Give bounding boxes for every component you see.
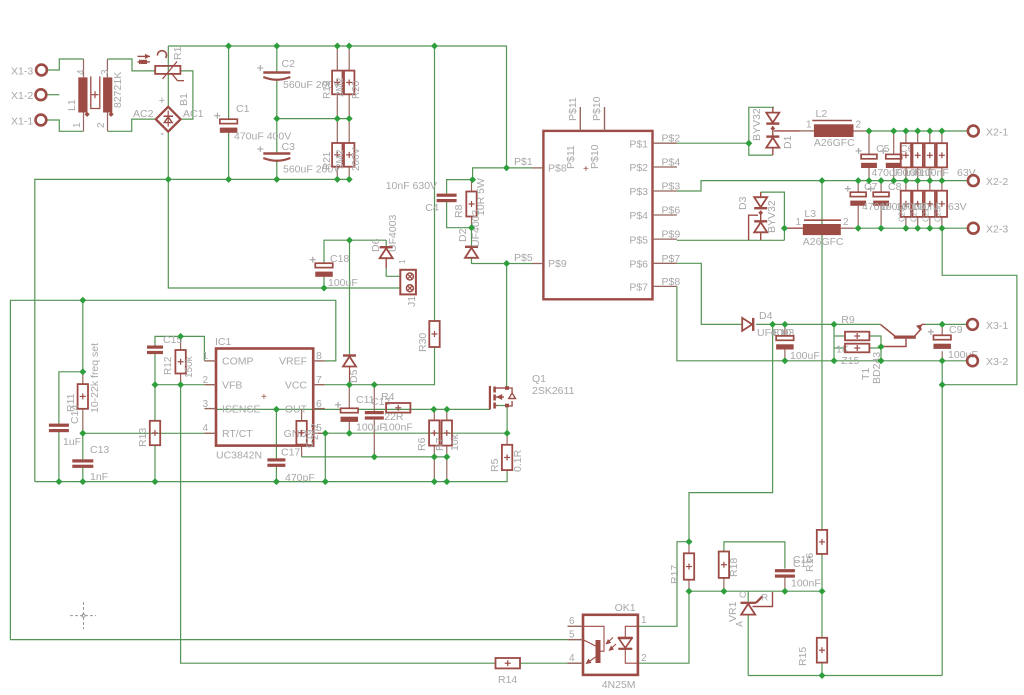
svg-text:X1-2: X1-2 [11,90,33,102]
wire Q1 drain column [506,264,508,388]
svg-text:X1-1: X1-1 [11,116,33,128]
wire top rail B+ [168,46,506,168]
svg-text:X3-1: X3-1 [986,320,1008,332]
svg-text:2SK2611: 2SK2611 [532,385,575,397]
capacitor C8 100nF [868,181,902,206]
wire D2 anode to P$5 row [472,257,532,263]
wire R16 R15 node column [821,554,823,676]
svg-text:ISENSE: ISENSE [222,404,261,416]
diode D2 UF4003 [457,209,482,257]
svg-text:1nF: 1nF [90,471,108,483]
svg-text:100uF: 100uF [328,277,358,289]
wire X2-2 rail [677,181,967,191]
svg-text:63V: 63V [948,201,967,213]
svg-text:+: + [159,95,165,107]
svg-text:P$3: P$3 [629,186,648,198]
value text output row 1 [872,167,976,179]
diode D6 UF4003 [370,214,399,268]
wire OK1 pin 1 to R17 top [638,542,689,627]
svg-text:L1: L1 [66,99,78,111]
wire row under R6 R7 [302,456,448,458]
svg-text:VREF: VREF [279,356,307,368]
wire D1 cathode to L2 [774,130,800,132]
svg-text:P$9: P$9 [548,258,567,270]
svg-text:1: 1 [796,217,802,228]
resistor R17 [669,553,694,584]
wire C15 bottom to VFB [154,354,156,385]
svg-text:X2-3: X2-3 [986,224,1008,236]
capacitor C20 [901,143,911,167]
svg-text:R7: R7 [434,437,446,451]
transistor T1 BD243 [860,324,925,384]
wire P$8 to X3-2 rail [677,286,967,360]
svg-text:4: 4 [202,423,208,434]
capacitor C18 100uF [310,253,358,289]
svg-text:+: + [583,164,589,175]
resistor R4 22R [381,391,410,423]
resistor R6 10k [416,420,440,451]
wire C16 bottom stub [784,577,786,591]
svg-text:P$5: P$5 [514,252,533,264]
svg-text:P$9: P$9 [662,229,681,241]
capacitor C19 under OUT [296,421,321,448]
resistor R11 10-22k freq set [65,343,101,424]
connector X1-1 [11,115,46,128]
svg-text:P$1: P$1 [514,156,533,168]
svg-text:OK1: OK1 [615,602,636,614]
capacitor C25 [913,191,923,217]
wire R14 to OK1 pin 4 [520,662,583,664]
wire R8 stubs [471,180,473,228]
svg-text:D2: D2 [457,228,469,242]
value text output row 2 [862,201,967,213]
svg-text:R1: R1 [172,46,184,60]
svg-text:D3: D3 [737,196,749,210]
capacitor C6 100nF [880,143,913,168]
svg-text:R14: R14 [498,674,517,686]
wire C2 C3 column [277,46,349,179]
svg-text:P$11: P$11 [567,97,579,121]
svg-text:D6: D6 [370,238,382,252]
resistor R21 [322,143,343,170]
connector X1-3 [11,65,47,78]
op-amp IC1 UC3842N [202,336,324,462]
svg-text:1: 1 [72,122,83,128]
svg-text:R30: R30 [417,333,429,352]
svg-text:C17: C17 [281,447,300,459]
wire snubber to C4 [447,180,473,194]
wire P$9 row to D3 [677,239,785,241]
svg-text:R: R [762,593,769,603]
svg-text:D1: D1 [782,135,794,149]
svg-text:C9: C9 [949,324,963,336]
wire snubber node from P$1 [473,168,507,180]
wire L1 pin 3 to varistor R1 [107,59,155,71]
wire P$2 row [677,142,749,144]
wire R12 stubs [180,336,182,384]
svg-text:4: 4 [569,653,575,664]
inductor L1 [66,59,124,131]
svg-text:P$7: P$7 [662,253,681,265]
wire C13 column [82,433,84,481]
wire R11 stubs [82,372,84,434]
svg-text:R6: R6 [416,437,428,451]
wire D3 to L3 pin 1 [784,227,802,229]
resistor R22 [335,143,362,171]
wire D6 anode to J1 pin 1 [386,268,400,276]
svg-text:X3-2: X3-2 [986,356,1008,368]
wire C7 column [857,181,859,229]
svg-text:C1: C1 [236,103,250,115]
wire X2-3 to feedback loop [942,228,1017,385]
svg-text:IC1: IC1 [215,336,232,348]
wire ground rail [35,471,507,482]
svg-text:A: A [735,621,745,627]
svg-text:VCC: VCC [285,380,308,392]
connector X2-2 [968,175,1008,188]
resistor R16 [793,530,827,572]
wire R30 top column [434,46,436,321]
resistor R5 0.1R [489,445,524,472]
svg-text:A26GFC: A26GFC [803,236,844,248]
capacitor C4 10nF 630V [386,180,457,214]
optocoupler OK1 4N25M [568,602,648,691]
wire R9 Z15 left bracket [834,324,845,360]
connector X1-2 [11,89,46,102]
svg-text:63V: 63V [957,167,976,179]
svg-text:6: 6 [316,398,322,410]
wire R17 stubs [688,542,690,592]
wire VR1 cathode stub [747,591,749,601]
wire R5 stubs [506,433,508,445]
wire C8 column [880,181,882,229]
wire B+ node vertical through R1 [167,46,169,107]
wire C1 column [228,46,230,179]
wire C12 stubs [373,385,375,457]
capacitor C1 470uF 400V [214,103,291,143]
svg-text:C3: C3 [282,141,296,153]
capacitor C27 [937,191,947,217]
svg-text:OUT: OUT [285,404,308,416]
varistor R1 [138,46,185,80]
wire D4 node to opto feedback [689,324,773,541]
resistor R8 10R 5W [453,178,487,218]
svg-text:1: 1 [398,259,407,264]
svg-text:P$4: P$4 [629,210,648,222]
svg-text:P$1: P$1 [629,138,648,150]
svg-text:P$4: P$4 [662,157,681,169]
wire ISENSE OUT gate row [216,408,490,410]
wire C10 column [784,324,786,360]
zener Z15 [841,344,869,367]
svg-text:1: 1 [806,120,812,131]
wire OK1 pin 2 to divider [638,591,689,663]
svg-text:R18: R18 [728,558,740,577]
wire C18 bottom [323,277,325,288]
wire C4 bottom to D2 node [447,201,472,228]
svg-text:R12: R12 [163,356,174,375]
wire VREF to R11 [82,300,84,372]
svg-text:C13: C13 [90,444,109,456]
wire D3 anode bracket [761,192,785,240]
wire R9 Z15 right bracket [869,336,881,361]
svg-text:P$5: P$5 [629,234,648,246]
resistor R15 [797,638,827,666]
wire VFB row [155,384,204,386]
svg-text:100nF: 100nF [383,422,413,434]
wire bleeder stubs top pair [337,46,349,119]
svg-text:C4: C4 [425,202,439,214]
svg-text:150k: 150k [184,355,195,378]
svg-text:Q1: Q1 [532,373,546,385]
svg-text:100uF: 100uF [356,422,386,434]
svg-text:100nF: 100nF [919,167,949,179]
capacitor C11 100uF [335,394,386,434]
svg-text:P$10: P$10 [589,144,601,169]
svg-text:C18: C18 [330,253,349,265]
capacitor C3 560uF 200V [257,141,340,176]
capacitor C21 [913,143,923,167]
wire VCC row to R30 [325,347,435,385]
svg-text:0.1R: 0.1R [512,449,524,472]
wire C6 column [893,131,895,181]
connector J1 [398,259,418,307]
wire R11 to C14 branch [59,372,83,424]
svg-text:UF4003: UF4003 [387,214,399,252]
svg-text:P$7: P$7 [629,282,648,294]
svg-text:BYV32: BYV32 [766,200,778,233]
svg-text:P$11: P$11 [565,145,577,169]
wire R13 column [154,385,156,482]
svg-text:R21: R21 [322,151,333,170]
diode D1 BYV32 [751,107,794,155]
filter cap labels bottom [898,207,943,222]
wire X1-2 stub [47,94,59,96]
capacitor C17 470pF [267,447,314,485]
svg-text:3: 3 [100,69,111,75]
svg-text:UC3842N: UC3842N [216,450,262,462]
svg-text:2M2: 2M2 [335,77,346,97]
svg-text:D4: D4 [759,310,773,322]
wire R7 stubs [446,409,448,481]
wire RT/CT row [83,432,205,434]
wire D6 cathode stub [385,240,387,246]
svg-text:R5: R5 [489,458,501,472]
capacitor C16 100nF [775,554,821,590]
svg-text:100uF: 100uF [790,350,820,362]
connector X2-3 [968,223,1008,236]
svg-text:X2-2: X2-2 [986,176,1008,188]
capacitor C9 100uF [928,324,978,361]
svg-text:82721K: 82721K [112,72,124,108]
resistor R30 [417,321,440,352]
svg-text:470pF: 470pF [285,472,315,484]
inductor L2 A26GFC [800,108,867,149]
wire R18 C16 top link [724,542,785,569]
diode D4 UF4003 [742,310,794,339]
diode D3 BYV32 [737,192,778,240]
wire R18 bottom stub [723,578,725,591]
capacitor C7 470uF 63V [845,181,878,206]
svg-text:3: 3 [202,399,208,410]
resistor R9 1K [836,314,869,356]
svg-text:X2-1: X2-1 [986,127,1008,139]
svg-text:P$6: P$6 [629,259,648,271]
svg-text:100nF: 100nF [912,201,942,213]
wire divider row [689,590,822,592]
wire D5 column [349,240,351,354]
wire D2 node [471,228,473,246]
svg-text:D5: D5 [348,369,360,383]
svg-text:2M2: 2M2 [335,149,346,169]
wire ISENSE to C17 [275,409,277,481]
svg-text:1uF: 1uF [63,436,81,448]
svg-text:2: 2 [96,122,107,128]
resistor R13 [137,421,160,447]
capacitor C15 [147,334,182,354]
svg-text:2: 2 [202,375,208,386]
wire COMP to C15 [155,336,204,361]
svg-text:A26GFC: A26GFC [814,137,855,149]
svg-text:R20: R20 [351,80,362,99]
capacitor C10 100uF [771,329,820,362]
wire P$7 to D4 [677,263,742,324]
svg-text:BD243: BD243 [871,352,883,384]
svg-text:5: 5 [569,630,575,641]
svg-text:R19: R19 [322,80,333,99]
wire X1-1 to L1 pin 1 [47,120,84,131]
wire D1 anode bracket [749,107,774,155]
svg-text:2: 2 [843,217,849,228]
svg-text:L2: L2 [816,108,828,120]
wire L1 pin 2 to bridge AC2 [108,119,156,131]
svg-text:2n2: 2n2 [310,423,321,440]
svg-text:B1: B1 [178,93,190,106]
capacitor C12 100nF [365,396,413,434]
resistor R14 [496,658,521,686]
svg-text:22R: 22R [384,411,404,423]
bridge rectifier B1 [133,93,204,134]
svg-text:Z15: Z15 [841,355,859,367]
wire bleeder stubs bottom pair [337,119,349,180]
wire C11 stubs [348,385,350,434]
svg-text:R13: R13 [137,428,149,447]
svg-text:+: + [261,392,267,403]
capacitor C23 [937,143,947,167]
wire L3 to X2-3 rail [854,227,968,229]
wire L2 to X2-1 rail [867,130,968,132]
wire D4 output row [756,323,880,325]
svg-text:1: 1 [641,615,647,626]
wire VR1 anode [747,615,749,675]
wire primary return rail [35,179,352,481]
wire C9 column [941,324,943,360]
resistor R12 150k [163,350,195,378]
svg-text:R17: R17 [669,565,681,584]
svg-text:P$2: P$2 [629,162,648,174]
wire GND pin drop [324,433,326,481]
wire C5 column [868,131,870,181]
capacitor C26 [925,191,935,217]
capacitor C13 1nF [72,444,109,483]
wire R1 to bridge AC1 [180,71,193,119]
svg-text:J1: J1 [406,296,418,307]
svg-text:4N25M: 4N25M [602,679,636,691]
svg-text:10-22k freq set: 10-22k freq set [89,343,101,413]
svg-text:7: 7 [316,374,322,386]
resistor R19 [322,71,343,99]
wire T1 emitter to X3-1 [925,323,967,325]
resistor R20 [335,71,362,99]
svg-text:L3: L3 [804,208,816,220]
svg-text:COMP: COMP [222,356,254,368]
svg-text:X1-3: X1-3 [11,66,33,78]
wire C19 stubs under OUT [301,409,303,457]
connector X3-2 [967,355,1008,368]
wire R16 column from X2-2 [821,181,823,530]
svg-text:VR1: VR1 [727,601,739,622]
wire GND pin row to Q1 source [325,432,507,434]
svg-text:BYV32: BYV32 [751,108,763,141]
svg-text:C2: C2 [282,58,296,70]
svg-text:10nF 630V: 10nF 630V [386,180,437,192]
svg-text:AC2: AC2 [133,108,154,120]
svg-text:4: 4 [76,69,87,75]
origin cross [70,602,96,629]
resistor R7 10k [434,420,461,451]
wire Q1 source to sense node [497,406,507,434]
shunt regulator VR1 [727,591,773,627]
svg-text:1: 1 [202,351,208,362]
transistor Q1 2SK2611 [490,373,575,409]
svg-text:100nF: 100nF [791,578,821,590]
connector X2-1 [968,126,1008,139]
svg-text:P$2: P$2 [662,133,681,145]
wire R6 stubs [433,409,435,481]
svg-text:C14: C14 [69,405,81,424]
capacitor C22 [925,143,935,167]
svg-text:2: 2 [641,653,647,664]
svg-text:P$3: P$3 [662,181,681,193]
svg-text:10k: 10k [449,433,461,451]
svg-text:200V: 200V [351,147,362,171]
capacitor C2 560uF 200V [257,58,340,91]
svg-text:C1: C1 [793,558,807,570]
svg-text:R8: R8 [453,204,465,218]
svg-text:RT/CT: RT/CT [222,428,253,440]
diode D5 [343,356,360,385]
wire X1-3 to L1 pin 4 [47,59,84,70]
capacitor C24 [901,191,911,217]
wire bridge minus to J1 row [168,131,400,288]
svg-text:P$8: P$8 [548,163,567,175]
wire filter cap stubs bottom [906,181,942,229]
capacitor C5 470uF 63V [856,143,890,168]
svg-text:P$6: P$6 [662,205,681,217]
wire VFB to R14 to OK1 pin 4 [181,385,496,664]
wire C14 bottom [58,432,60,482]
resistor R18 [719,552,740,578]
wire filter cap stubs top [906,131,942,181]
svg-text:VFB: VFB [222,380,242,392]
wire P$1 row to transformer [507,167,532,169]
transformer TR1 [514,96,680,299]
svg-text:AC1: AC1 [183,108,204,120]
svg-text:8: 8 [316,350,322,362]
svg-text:6: 6 [569,616,575,627]
svg-text:R4: R4 [381,391,395,403]
inductor L3 A26GFC [796,208,854,248]
